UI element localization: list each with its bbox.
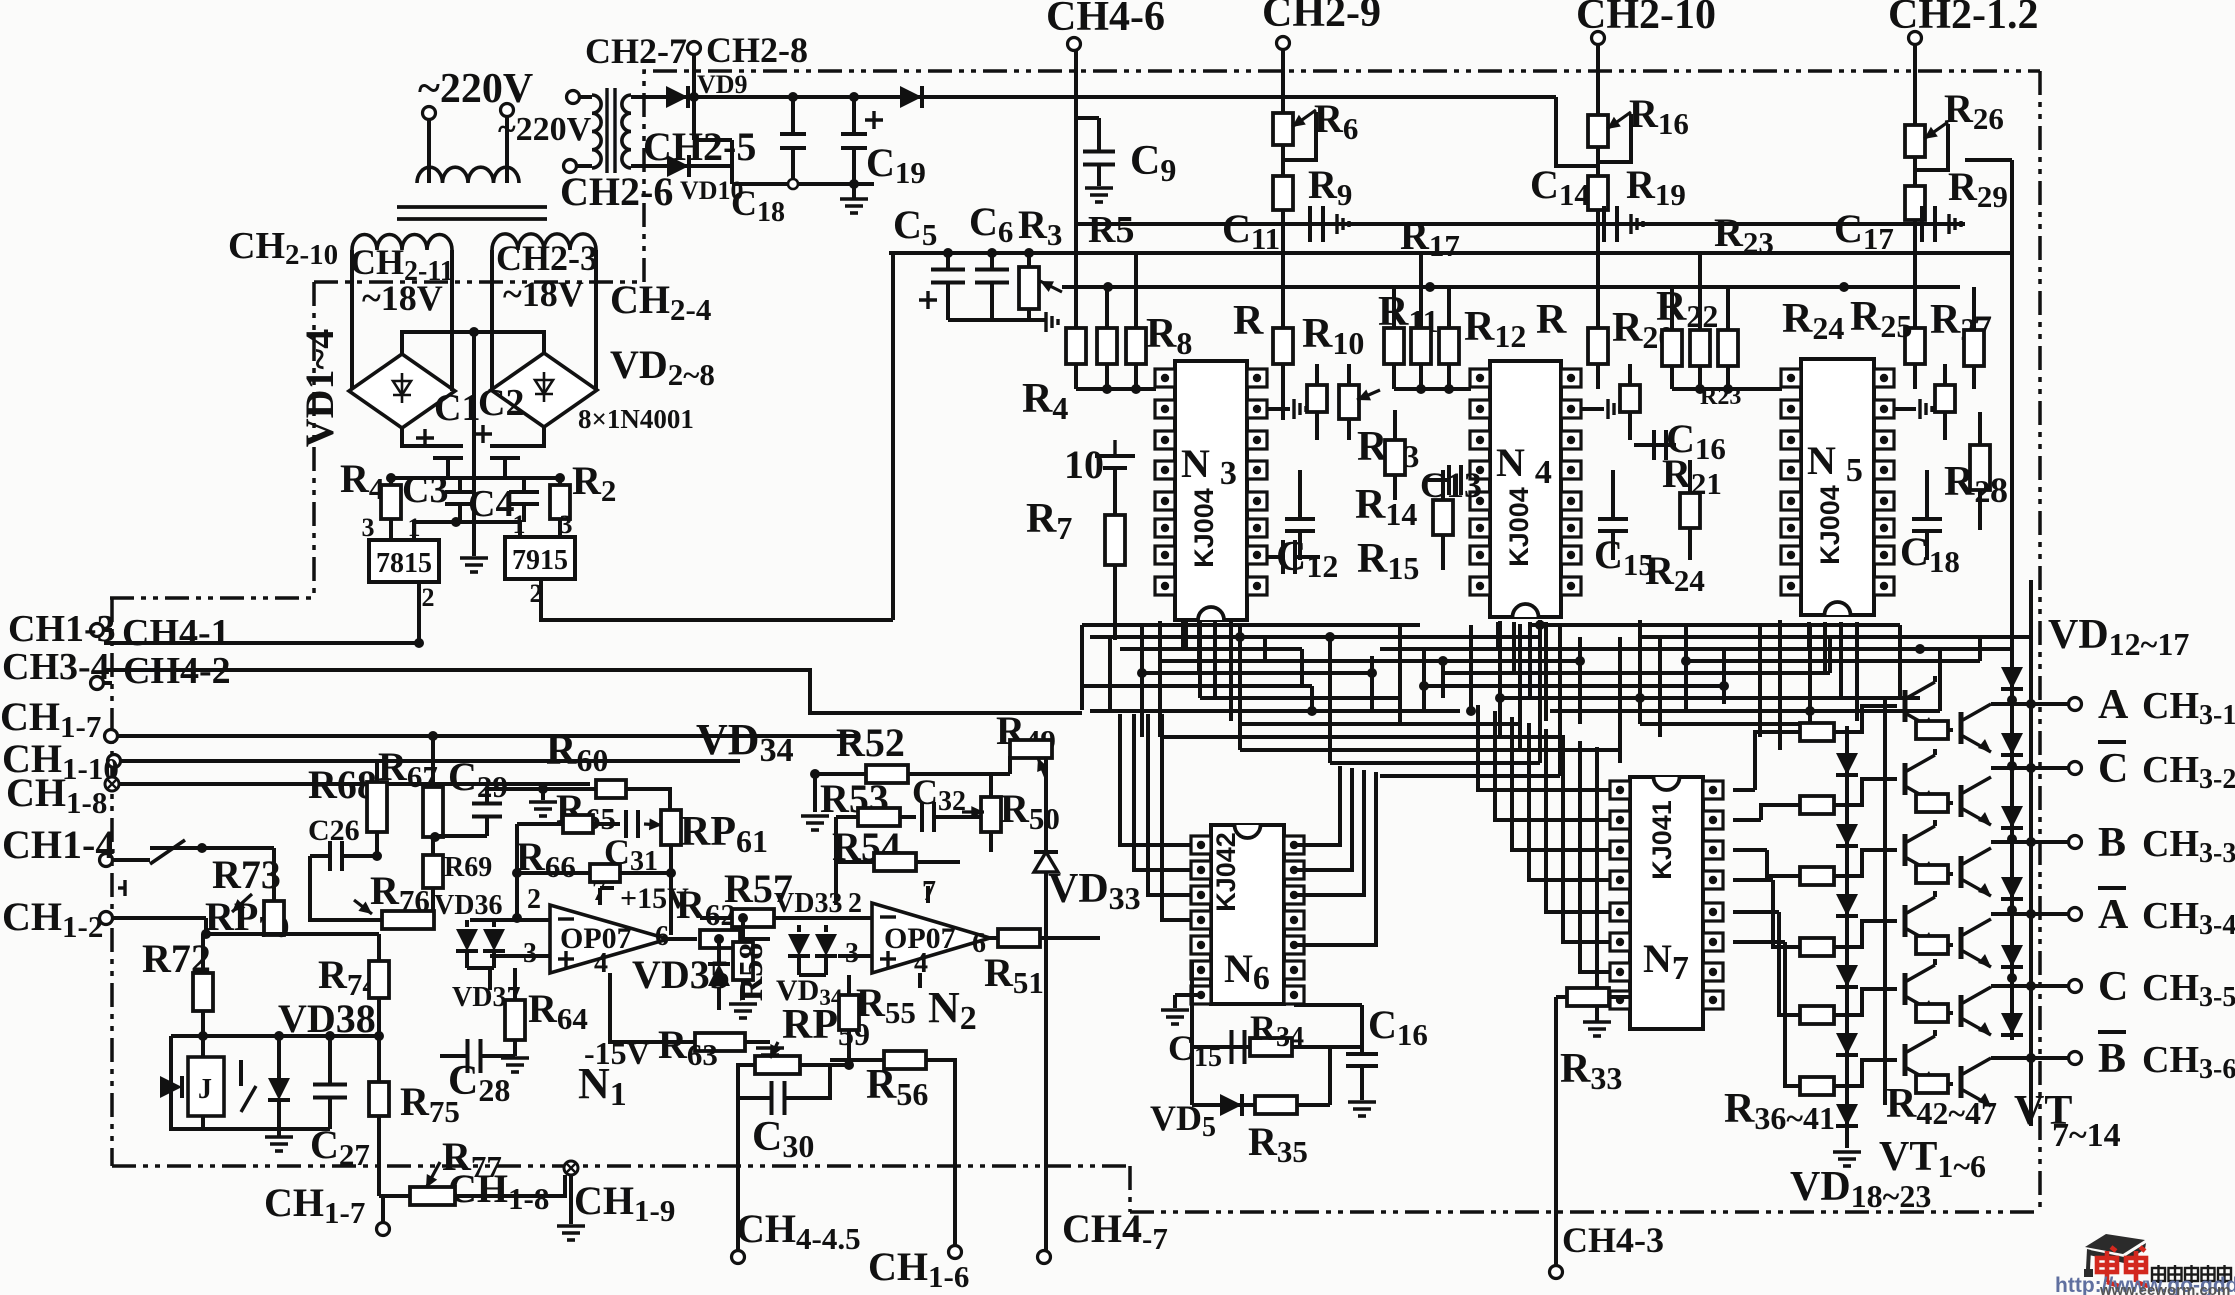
svg-text:3: 3 bbox=[362, 513, 375, 542]
wire top rail bbox=[631, 95, 1556, 99]
wire output bbox=[1991, 1056, 2068, 1060]
terminal CH3-2 bbox=[2069, 762, 2082, 775]
wire maze h bbox=[1090, 635, 1540, 639]
wire bbox=[813, 774, 817, 812]
wire bbox=[908, 772, 1010, 776]
transistor VT1~6 element bbox=[1905, 965, 1935, 1013]
wire bbox=[1688, 460, 1692, 493]
svg-text:6: 6 bbox=[655, 921, 669, 952]
junction bbox=[714, 934, 724, 944]
potentiometer R77 bbox=[410, 1187, 455, 1205]
ground R33 bbox=[1583, 1022, 1611, 1036]
wire R60 rail bbox=[487, 787, 596, 791]
ground C19 bbox=[840, 199, 868, 213]
svg-text:CH2-9: CH2-9 bbox=[1262, 0, 1381, 36]
wire rail VD18 column bbox=[1845, 726, 1849, 1148]
junction bbox=[2026, 763, 2036, 773]
logic IC N7 KJ041 pin bbox=[1610, 903, 1630, 921]
svg-text:2: 2 bbox=[527, 884, 541, 915]
op-amp IC N5 KJ004 pin bbox=[1874, 577, 1894, 595]
terminal CH1-7 bbox=[105, 730, 118, 743]
trigger IC N6 KJ042 pin bbox=[1284, 911, 1304, 929]
op-amp IC N5 KJ004 pin bbox=[1874, 492, 1894, 510]
resistor R42~47 element bbox=[1916, 1075, 1948, 1093]
wire bbox=[830, 1058, 884, 1062]
diode VD18~23 element bbox=[1836, 1104, 1858, 1126]
op-amp IC N5 KJ004 pin bbox=[1781, 431, 1801, 449]
op-amp IC N3 KJ004 bbox=[1175, 361, 1247, 620]
wire base to VT bbox=[1834, 921, 1897, 947]
wire maze v bbox=[1898, 625, 1902, 698]
boundary left vertical upper bbox=[312, 282, 316, 598]
resistor N4r1 bbox=[1620, 385, 1640, 412]
wire to N6 pin bbox=[1120, 714, 1205, 845]
resistor R21 bbox=[1680, 493, 1700, 528]
wire bbox=[1315, 412, 1319, 440]
diode VD12~17 element bbox=[2001, 733, 2023, 755]
wire bbox=[989, 832, 993, 852]
wire bbox=[1670, 366, 1674, 389]
wire bbox=[1698, 366, 1702, 389]
wire bbox=[600, 886, 614, 890]
capacitor C26 bbox=[330, 841, 342, 871]
bus line 2 bbox=[889, 251, 2012, 255]
capacitor C3 bbox=[445, 492, 475, 504]
transformer T2 primary winding bbox=[592, 95, 601, 168]
capacitor C11 ground bbox=[1337, 214, 1349, 234]
terminal CH2-9 bbox=[1277, 37, 1290, 50]
wire to N7 pin bbox=[1546, 729, 1610, 912]
capacitor C9 bbox=[1083, 152, 1115, 165]
op-amp IC N5 KJ004 pin bbox=[1874, 519, 1894, 537]
resistor R60 bbox=[596, 780, 626, 798]
terminal CH4-7 bbox=[1038, 1251, 1051, 1264]
capacitor C2 bbox=[490, 446, 520, 458]
wire maze h bbox=[1090, 709, 1460, 713]
svg-text:8: 8 bbox=[1990, 470, 2008, 510]
wire C13 bbox=[1428, 478, 1449, 482]
wire IC bottom lead bbox=[1197, 622, 1201, 673]
wire CH1-2 stub bbox=[113, 916, 206, 920]
wire relay top rail bbox=[171, 1034, 382, 1038]
wire bbox=[579, 95, 592, 99]
wire bbox=[1190, 1047, 1194, 1105]
wire IC bottom lead bbox=[1807, 622, 1811, 649]
trigger IC N6 KJ042 bbox=[1211, 825, 1284, 1004]
wire C16 link bbox=[1360, 1005, 1364, 1047]
wire bbox=[740, 937, 770, 941]
svg-text:CH1-3: CH1-3 bbox=[8, 608, 116, 650]
wire bbox=[610, 990, 695, 1042]
wiper arrow R6 bbox=[1292, 110, 1316, 127]
svg-text:KJ004: KJ004 bbox=[1504, 487, 1534, 567]
junction maze bbox=[1367, 668, 1377, 678]
wiper R50 bbox=[962, 806, 984, 818]
terminal CH2-10 bbox=[1592, 32, 1605, 45]
wire regulator pin1 link bbox=[414, 522, 520, 540]
wire R3 top bbox=[1027, 253, 1031, 267]
wiper R76 bbox=[354, 900, 372, 914]
wire maze v bbox=[1080, 625, 1084, 710]
wire bbox=[989, 774, 993, 797]
wire bbox=[310, 856, 382, 920]
wire bbox=[375, 761, 379, 782]
capacitor C14 ground bbox=[1631, 214, 1643, 234]
wire bbox=[669, 845, 673, 873]
junction bbox=[666, 868, 676, 878]
wire bbox=[1266, 407, 1290, 411]
transistor VT7~14 element bbox=[1961, 987, 1991, 1035]
wire N6 pin r3 bbox=[1294, 770, 1364, 895]
wire bbox=[900, 815, 916, 819]
resistor R7col bbox=[1097, 328, 1117, 364]
op-amp N1 OP07 minus bbox=[558, 917, 574, 920]
svg-text:CH2-8: CH2-8 bbox=[706, 30, 808, 70]
wire bbox=[431, 888, 435, 920]
transistor VT1~6 element bbox=[1905, 897, 1935, 945]
op-amp IC N5 KJ004 pin bbox=[1781, 461, 1801, 479]
wire bbox=[1670, 287, 1674, 330]
transistor VT7~14 element bbox=[1961, 919, 1991, 967]
capacitor C18 bbox=[780, 134, 806, 148]
wire bbox=[277, 1100, 281, 1129]
wire diode link bbox=[2012, 984, 2031, 988]
junction bbox=[1695, 384, 1705, 394]
wire bbox=[541, 789, 545, 800]
wire maze v bbox=[1328, 637, 1332, 763]
resistor R72 bbox=[193, 973, 213, 1011]
wire maze v bbox=[1578, 637, 1582, 724]
svg-text:C2: C2 bbox=[478, 382, 524, 424]
wire bbox=[774, 916, 850, 920]
resistor R63 bbox=[695, 1033, 745, 1051]
wiper arrow R26 bbox=[1924, 122, 1948, 139]
junction bbox=[512, 913, 522, 923]
ground N6 bbox=[1161, 1010, 1189, 1024]
junction bbox=[555, 473, 565, 483]
junction bbox=[2007, 761, 2017, 771]
wire bbox=[1556, 995, 1567, 999]
wire bbox=[1315, 364, 1319, 385]
resistor R36~41 element bbox=[1800, 723, 1834, 741]
relay J coil bbox=[188, 1057, 224, 1116]
diode VD5 bbox=[1220, 1094, 1242, 1116]
wire R7 up bbox=[1113, 470, 1117, 515]
junction bbox=[1416, 384, 1426, 394]
wire bbox=[1634, 443, 1676, 447]
wire CH2-1.2 column lower bbox=[1913, 220, 1917, 328]
ground R60 node bbox=[529, 802, 557, 816]
wire bbox=[1419, 364, 1423, 389]
wire bbox=[1360, 1047, 1364, 1054]
op-amp IC N4 KJ004 pin bbox=[1561, 431, 1581, 449]
svg-text:3: 3 bbox=[560, 510, 573, 539]
wire bbox=[201, 1116, 205, 1129]
wire R72 bottom bbox=[201, 1011, 205, 1036]
op-amp IC N4 KJ004 pin bbox=[1470, 492, 1490, 510]
op-amp IC N5 KJ004 pin bbox=[1781, 577, 1801, 595]
watermark black glyph bbox=[2152, 1265, 2165, 1283]
op-amp IC N3 KJ004 pin bbox=[1155, 519, 1175, 537]
resistor N3r1 bbox=[1307, 385, 1327, 412]
resistor R51 bbox=[998, 929, 1040, 947]
wire base to VT bbox=[1834, 706, 1897, 732]
trigger IC N6 KJ042 pin bbox=[1284, 961, 1304, 979]
capacitor C12 bbox=[1283, 540, 1295, 574]
diode VD38 bbox=[268, 1078, 290, 1100]
wire CH1-7 line bbox=[118, 734, 860, 738]
wire IC bottom lead bbox=[1528, 622, 1532, 697]
wire bbox=[1948, 872, 1953, 876]
transistor VT7~14 element bbox=[1961, 777, 1991, 825]
svg-text:3: 3 bbox=[523, 938, 537, 969]
wire driver base bbox=[1767, 850, 1800, 876]
wire maze h bbox=[1240, 722, 1520, 726]
op-amp IC N4 KJ004 pin bbox=[1470, 577, 1490, 595]
wire T1 sec1 left lead bbox=[350, 250, 354, 391]
wire bbox=[745, 1040, 770, 1044]
resistor N4c bbox=[1439, 328, 1459, 364]
wire bbox=[620, 871, 671, 875]
polarity + bbox=[474, 425, 492, 443]
wiper R77 bbox=[426, 1162, 440, 1188]
wire bbox=[1688, 528, 1692, 560]
wire to N7 pin bbox=[1478, 705, 1610, 790]
wire bbox=[427, 120, 431, 183]
wire base to VT bbox=[1834, 989, 1897, 1015]
regulator 7915 bbox=[505, 537, 575, 579]
wire bbox=[1441, 470, 1445, 500]
ground centre tap bbox=[460, 558, 488, 572]
wire IC bottom lead bbox=[1855, 622, 1859, 721]
wire maze v bbox=[1300, 649, 1304, 686]
wire output bbox=[1991, 912, 2068, 916]
op-amp IC N3 KJ004 pin bbox=[1247, 431, 1267, 449]
wiper arrow RP61 bbox=[644, 818, 662, 830]
op-amp IC N3 KJ004 pin bbox=[1155, 461, 1175, 479]
op-amp IC N3 KJ004 notch bbox=[1198, 607, 1224, 620]
bridge rectifier VD2~8 internal diode bbox=[535, 372, 553, 402]
op-amp IC N3 KJ004 pin bbox=[1155, 546, 1175, 564]
svg-text:KJ004: KJ004 bbox=[1189, 488, 1219, 568]
wire maze h bbox=[1640, 635, 2030, 639]
wire bbox=[1933, 749, 1937, 755]
diode VD33 bbox=[1034, 852, 1058, 872]
wire C3 lower lead bbox=[458, 504, 462, 522]
contact plate bbox=[118, 880, 125, 896]
resistor R42~47 element bbox=[1916, 794, 1948, 812]
wire N6 loop left bbox=[1190, 960, 1194, 1047]
svg-text:CH4-3: CH4-3 bbox=[1562, 1220, 1664, 1260]
wire bbox=[1933, 1030, 1937, 1036]
wire bbox=[513, 1040, 517, 1056]
junction bbox=[788, 92, 798, 102]
wire bbox=[377, 1116, 381, 1196]
junction bbox=[2026, 981, 2036, 991]
wire bbox=[389, 478, 393, 485]
wire output bbox=[1991, 766, 2068, 770]
svg-text:C13: C13 bbox=[1420, 465, 1482, 505]
terminal CH3-1 bbox=[2069, 698, 2082, 711]
overbar bbox=[2098, 740, 2126, 744]
wire maze h bbox=[1380, 774, 1560, 778]
capacitor C6 bbox=[975, 270, 1009, 283]
regulator 7815 bbox=[369, 540, 439, 582]
wire bbox=[104, 681, 112, 685]
junction maze bbox=[1681, 656, 1691, 666]
junction bbox=[2007, 905, 2017, 915]
trigger IC N6 KJ042 pin bbox=[1284, 886, 1304, 904]
wire maze v bbox=[1938, 649, 1942, 711]
wire bbox=[1360, 1066, 1364, 1100]
logic IC N7 KJ041 pin bbox=[1703, 991, 1723, 1009]
wire rail outer bbox=[2029, 580, 2033, 1126]
wire R74 top bbox=[377, 934, 381, 961]
potentiometer R6 bbox=[1273, 113, 1293, 145]
resistor R27 bbox=[1964, 330, 1984, 366]
wire bbox=[1393, 475, 1397, 500]
wire N7 out bbox=[1733, 878, 1773, 882]
terminal T2 primary a bbox=[567, 91, 580, 104]
op-amp IC N5 KJ004 notch bbox=[1825, 602, 1851, 615]
op-amp N1 OP07 plus bbox=[558, 951, 574, 967]
op-amp IC N3 KJ004 pin bbox=[1155, 431, 1175, 449]
potentiometer R49 bbox=[1010, 740, 1052, 758]
wire driver base bbox=[1755, 732, 1800, 790]
logic IC N7 KJ041 pin bbox=[1610, 811, 1630, 829]
svg-text:C3: C3 bbox=[402, 469, 448, 511]
wire IC bottom lead bbox=[1496, 622, 1500, 649]
ground R63 bbox=[756, 1048, 784, 1062]
wire bbox=[505, 117, 509, 183]
junction bbox=[2007, 834, 2017, 844]
wire maze v bbox=[1538, 620, 1542, 763]
wire bbox=[847, 1030, 851, 1065]
resistor R74 bbox=[369, 961, 389, 998]
diode VD12~17 element bbox=[2001, 806, 2023, 828]
capacitor C5 bbox=[931, 270, 965, 283]
wire IC bottom lead bbox=[1213, 622, 1217, 697]
svg-text:KJ004: KJ004 bbox=[1815, 485, 1845, 565]
junction bbox=[943, 248, 953, 258]
wire R77 to CH1-8 bbox=[455, 1175, 565, 1196]
wire bbox=[1948, 943, 1953, 947]
junction maze bbox=[1915, 644, 1925, 654]
wire bbox=[1894, 407, 1916, 411]
wire bbox=[1628, 412, 1632, 440]
wire bbox=[431, 736, 435, 787]
wire bbox=[375, 832, 379, 856]
ground N4 pin bbox=[1608, 399, 1620, 419]
wire N6 pin gnd bbox=[1175, 993, 1201, 997]
capacitor C27 bbox=[313, 1085, 347, 1098]
wire R72 top bbox=[201, 934, 205, 973]
junction bbox=[849, 179, 859, 189]
svg-text:~18V: ~18V bbox=[362, 278, 443, 318]
bus line 3 bbox=[1062, 285, 1960, 289]
wire diode link bbox=[2012, 1056, 2031, 1060]
op-amp IC N5 KJ004 pin bbox=[1781, 369, 1801, 387]
capacitor N4c bbox=[1598, 519, 1628, 531]
transistor VT7~14 element bbox=[1961, 848, 1991, 896]
op-amp IC N4 KJ004 pin bbox=[1470, 461, 1490, 479]
wire bbox=[1913, 157, 1917, 186]
wire maze v bbox=[1638, 620, 1642, 724]
boundary top dash-dot bbox=[644, 71, 2040, 282]
wire bridge2 ac bbox=[490, 250, 494, 390]
wire bbox=[799, 973, 826, 977]
diode VD35 bbox=[708, 964, 730, 986]
svg-text:CH2-3: CH2-3 bbox=[496, 238, 598, 278]
junction maze bbox=[1635, 693, 1645, 703]
op-amp IC N3 KJ004 pin bbox=[1247, 461, 1267, 479]
wire C4 lower lead bbox=[522, 504, 526, 522]
diode VD12~17 element bbox=[2001, 667, 2023, 689]
wire output bbox=[1991, 984, 2068, 988]
junction bbox=[512, 868, 522, 878]
op-amp IC N4 KJ004 bbox=[1490, 361, 1561, 617]
wire N2 pin4 bbox=[918, 973, 922, 988]
ground R52 bbox=[801, 816, 829, 830]
wire bbox=[1933, 820, 1937, 826]
wire bbox=[1943, 412, 1947, 440]
op-amp IC N5 KJ004 pin bbox=[1874, 369, 1894, 387]
resistor R25col bbox=[1905, 328, 1925, 364]
wire bbox=[310, 854, 330, 858]
wire driver base bbox=[1773, 880, 1800, 947]
wire maze h bbox=[1550, 709, 1940, 713]
logic IC N7 KJ041 pin bbox=[1610, 933, 1630, 951]
wire bbox=[201, 1036, 205, 1057]
op-amp IC N4 KJ004 pin bbox=[1561, 492, 1581, 510]
wire right long vertical bbox=[2010, 160, 2014, 1040]
wire bbox=[815, 772, 866, 776]
junction bbox=[1723, 384, 1733, 394]
wire maze h bbox=[1082, 684, 1312, 688]
resistor R33 bbox=[1567, 988, 1609, 1006]
wire bbox=[1611, 531, 1615, 560]
resistor R68 bbox=[367, 782, 387, 832]
wire maze h bbox=[1640, 722, 1830, 726]
terminal CH4-4.5 bbox=[732, 1251, 745, 1264]
wire C9 bottom bbox=[1097, 165, 1101, 186]
wire to N7 pin bbox=[1529, 723, 1610, 880]
junction bbox=[689, 92, 699, 102]
watermark graduation cap bbox=[2084, 1234, 2146, 1277]
logic IC N7 KJ041 pin bbox=[1703, 871, 1723, 889]
transistor VT1~6 element bbox=[1905, 1036, 1935, 1084]
wire bbox=[1948, 1082, 1953, 1086]
transformer T2 secondary winding bbox=[622, 95, 631, 168]
wire C29 top bbox=[485, 789, 489, 803]
wire bridge1 dc out bbox=[402, 428, 448, 446]
wire C29 bottom bbox=[485, 816, 489, 836]
wiper arrow R3 bbox=[1040, 281, 1062, 292]
resistor R42~47 element bbox=[1916, 936, 1948, 954]
wire bbox=[1298, 531, 1302, 560]
wire maze h bbox=[1142, 671, 1372, 675]
resistor R7 bbox=[1105, 515, 1125, 565]
wire maze h bbox=[1530, 623, 1900, 627]
potentiometer R50 bbox=[981, 797, 1001, 832]
wire maze v bbox=[1684, 625, 1688, 711]
wire pin7 bbox=[598, 888, 602, 905]
resistor R54 bbox=[874, 853, 916, 871]
svg-text:4: 4 bbox=[594, 948, 608, 979]
wire R6 wiper bbox=[1283, 112, 1316, 160]
potentiometer RP61 bbox=[661, 810, 681, 845]
resistor R19 bbox=[1588, 176, 1608, 210]
